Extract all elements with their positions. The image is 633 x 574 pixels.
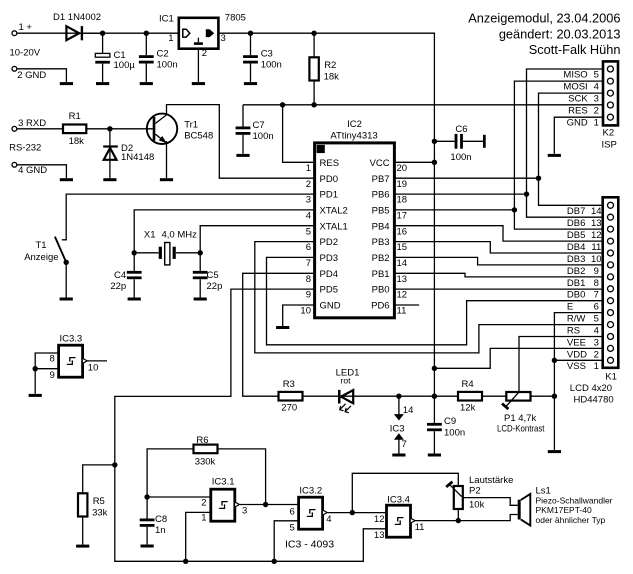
svg-text:14: 14 <box>591 206 602 217</box>
wire IC2 pin15 PB3 to K1 DB3 <box>394 242 602 253</box>
wire junction to IC3.1 pin2 <box>147 496 211 498</box>
svg-text:IC1: IC1 <box>159 13 174 24</box>
node junction MOSI/PB5 <box>512 207 517 212</box>
svg-text:6: 6 <box>306 242 311 253</box>
svg-text:100n: 100n <box>450 152 471 163</box>
wire IC2 pin17 PB5 to MOSI node <box>394 209 514 211</box>
svg-text:4: 4 <box>594 326 599 337</box>
wire K1 R/W to ground rail <box>554 313 602 451</box>
resistor R2 18k <box>309 33 339 105</box>
ground terminal2 <box>60 82 73 85</box>
wire 5V rail from IC1 out, down right side to LED row <box>218 33 434 396</box>
svg-text:4 GND: 4 GND <box>18 165 47 176</box>
svg-text:4: 4 <box>326 514 331 525</box>
svg-text:VCC: VCC <box>370 158 390 169</box>
svg-text:3 RXD: 3 RXD <box>18 118 46 129</box>
resistor R6 330k <box>147 435 266 505</box>
ground D2 <box>103 178 116 181</box>
svg-text:IC3: IC3 <box>390 424 405 435</box>
potentiometer P2 10k Lautstaerke <box>446 475 513 511</box>
svg-text:PD6: PD6 <box>371 301 389 312</box>
node junction IC3.1 pin1 on rail <box>183 559 188 564</box>
svg-text:15: 15 <box>397 242 408 253</box>
wire MOSI vertical K2 pin4 to K1 DB5 <box>514 81 603 229</box>
svg-text:PB5: PB5 <box>372 206 390 217</box>
wire PD4 to R3 <box>243 273 315 396</box>
crystal X1 4,0 MHz <box>137 229 198 265</box>
gate IC3.2 <box>290 485 332 533</box>
node junction VCC <box>432 160 437 165</box>
svg-text:PD3: PD3 <box>320 253 338 264</box>
svg-text:3: 3 <box>594 93 599 104</box>
svg-text:18: 18 <box>397 195 408 206</box>
wire D1 to IC1 <box>83 32 179 34</box>
svg-text:2 GND: 2 GND <box>17 70 46 81</box>
svg-text:5: 5 <box>594 69 599 80</box>
wire K1 VEE to P1 wiper <box>519 337 603 393</box>
svg-text:R3: R3 <box>283 379 295 390</box>
svg-text:12: 12 <box>591 230 602 241</box>
svg-text:13: 13 <box>591 218 602 229</box>
wire IC3.2 output to IC3.4 pin12 <box>327 512 386 514</box>
svg-text:4: 4 <box>594 81 599 92</box>
svg-text:2: 2 <box>594 349 599 360</box>
capacitor C7 100n <box>236 105 274 154</box>
wire IC2 pin11 PD6 stub <box>394 304 419 306</box>
ground C4 <box>128 298 141 301</box>
title block <box>468 11 620 57</box>
svg-text:10-20V: 10-20V <box>10 47 41 58</box>
ground C1 <box>96 82 109 85</box>
svg-text:1n: 1n <box>155 525 166 536</box>
svg-text:100n: 100n <box>261 60 282 71</box>
terminal 2 GND <box>12 66 46 81</box>
svg-text:7: 7 <box>306 258 311 269</box>
svg-text:XTAL2: XTAL2 <box>320 206 348 217</box>
svg-text:PD1: PD1 <box>320 190 338 201</box>
svg-text:2: 2 <box>594 105 599 116</box>
wire IC3.3 pin8 <box>35 353 58 369</box>
svg-text:PB4: PB4 <box>372 221 390 232</box>
svg-text:2: 2 <box>201 497 206 508</box>
svg-text:19: 19 <box>397 179 408 190</box>
wire rail to IC3.2 pin5 <box>274 521 298 562</box>
svg-text:1 +: 1 + <box>19 22 33 33</box>
capacitor C6 100n with rotated ground <box>432 124 486 163</box>
diode D2 1N4148 <box>103 129 154 178</box>
node junction X1 right <box>198 250 203 255</box>
svg-text:100µ: 100µ <box>114 60 136 71</box>
svg-text:PB6: PB6 <box>372 190 390 201</box>
svg-text:11: 11 <box>397 306 407 317</box>
potentiometer P1 4,7k <box>497 392 545 435</box>
svg-text:GND: GND <box>567 117 588 128</box>
svg-text:BC548: BC548 <box>184 131 213 142</box>
svg-text:T1: T1 <box>36 240 47 251</box>
svg-text:9: 9 <box>306 290 311 301</box>
svg-text:6: 6 <box>594 302 599 313</box>
svg-text:100n: 100n <box>444 427 465 438</box>
svg-text:C8: C8 <box>155 514 167 525</box>
wire terminal2 to ground <box>17 69 67 82</box>
node junction IC3 power <box>396 394 401 399</box>
svg-text:IC2: IC2 <box>347 119 362 130</box>
svg-text:C5: C5 <box>207 270 219 281</box>
wire rail to IC3.1 pin1 <box>186 512 211 561</box>
speaker Ls1 piezo <box>518 486 613 526</box>
node junction C2 <box>144 31 149 36</box>
wire IC2 pin5 XTAL1 to C5/X1 <box>200 226 314 253</box>
svg-text:10: 10 <box>591 254 602 265</box>
node junction IC3.1 out / R6 <box>263 502 268 507</box>
svg-text:LCD-Kontrast: LCD-Kontrast <box>497 424 545 435</box>
svg-text:MOSI: MOSI <box>563 81 587 92</box>
svg-text:3: 3 <box>242 506 247 517</box>
node junction IC3.3 inputs <box>33 366 38 371</box>
svg-text:1: 1 <box>201 513 206 524</box>
wire SCK vertical K2 pin3 to K1 DB7 <box>539 93 604 205</box>
svg-text:rot: rot <box>341 376 352 386</box>
wire R5 branch <box>83 465 115 493</box>
wire 5V to R4 <box>434 395 458 397</box>
svg-text:14: 14 <box>397 258 408 269</box>
svg-text:5: 5 <box>306 226 311 237</box>
svg-text:D1 1N4002: D1 1N4002 <box>53 12 101 23</box>
svg-text:20: 20 <box>397 163 408 174</box>
connector K2 ISP <box>602 61 619 150</box>
svg-text:VDD: VDD <box>567 349 587 360</box>
svg-text:8: 8 <box>50 354 55 365</box>
IC2 right pin numbers <box>397 163 408 317</box>
svg-text:100n: 100n <box>157 60 178 71</box>
svg-text:Anzeige: Anzeige <box>24 252 58 263</box>
svg-text:PB2: PB2 <box>372 253 390 264</box>
resistor R5 33k <box>78 493 108 518</box>
svg-text:DB3: DB3 <box>567 254 585 265</box>
svg-text:E: E <box>567 302 573 313</box>
svg-text:RS: RS <box>567 326 580 337</box>
wire E line PD3 to K1 E <box>267 257 603 344</box>
svg-text:3: 3 <box>221 33 226 44</box>
svg-text:1: 1 <box>306 163 311 174</box>
svg-text:12: 12 <box>374 514 385 525</box>
wire terminal4 to ground <box>17 165 67 178</box>
wire IC2 pin13 PB1 to K1 DB1 <box>394 273 602 277</box>
svg-text:18k: 18k <box>69 136 85 147</box>
svg-text:PKM17EPT-40: PKM17EPT-40 <box>536 505 592 515</box>
LED LED1 rot <box>336 368 360 413</box>
node junction SCK/PB7 <box>536 176 541 181</box>
svg-text:C6: C6 <box>455 124 467 135</box>
svg-text:DB5: DB5 <box>567 230 585 241</box>
wire P2 bottom to IC3.4 out row <box>457 509 459 521</box>
resistor R4 12k <box>458 379 482 413</box>
node junction IC3.2 pin5 on rail <box>272 559 277 564</box>
svg-text:4: 4 <box>306 211 311 222</box>
svg-text:10: 10 <box>88 362 99 373</box>
ground C8 <box>141 545 154 548</box>
svg-text:PD0: PD0 <box>320 174 338 185</box>
svg-text:P1 4,7k: P1 4,7k <box>504 413 536 424</box>
ground R5 <box>76 545 89 548</box>
capacitor C1 100u electrolytic <box>95 33 135 82</box>
svg-text:12k: 12k <box>460 403 476 414</box>
node junction R2 bottom on RES rail <box>311 102 316 107</box>
svg-text:oder ähnlicher Typ: oder ähnlicher Typ <box>536 515 606 525</box>
svg-text:18k: 18k <box>324 71 340 82</box>
node junction VDD branch <box>432 366 437 371</box>
ground C9 <box>428 454 441 457</box>
wire IC2 pin3 PD1 to switch T1 <box>62 194 315 240</box>
svg-text:XTAL1: XTAL1 <box>320 221 348 232</box>
wire RES rail C7 to K2 RES <box>243 104 603 106</box>
terminal 3 RXD <box>12 118 46 131</box>
svg-text:9: 9 <box>50 370 55 381</box>
resistor R1 18k <box>63 111 86 147</box>
wire IC2 pin20 VCC to 5V rail <box>394 161 434 163</box>
svg-text:X1: X1 <box>144 229 156 240</box>
diode D1 1N4002 <box>53 12 101 41</box>
resistor R3 270 <box>279 379 303 413</box>
svg-text:PB1: PB1 <box>372 269 390 280</box>
svg-text:P2: P2 <box>469 485 481 496</box>
wire terminal1 to D1 <box>17 32 103 34</box>
ground IC3 power <box>392 454 405 457</box>
wire K1 VSS to R/W rail <box>554 359 602 361</box>
svg-text:14: 14 <box>403 405 414 416</box>
wire IC3.3 pin9 <box>35 368 58 370</box>
svg-text:DB4: DB4 <box>567 242 585 253</box>
svg-text:13: 13 <box>397 274 408 285</box>
wire Tr1 collector to IC2 pin2 PD0 <box>167 105 315 179</box>
wire K2 GND pin1 to ground <box>554 117 603 154</box>
svg-text:IC3.2: IC3.2 <box>299 485 322 496</box>
node junction X1 left <box>132 250 137 255</box>
svg-text:Tr1: Tr1 <box>184 119 198 130</box>
svg-text:ISP: ISP <box>602 140 617 151</box>
wire IC2 pin19 PB7 to SCK node <box>394 177 538 179</box>
K1 pin labels <box>567 206 602 372</box>
svg-text:VSS: VSS <box>567 361 586 372</box>
wire IC1 pin2 to ground <box>197 49 199 82</box>
svg-text:100n: 100n <box>253 131 274 142</box>
svg-text:ATtiny4313: ATtiny4313 <box>330 131 377 142</box>
node junction C3 <box>248 31 253 36</box>
wire IC2 pin4 XTAL2 to C4/X1 <box>134 210 314 253</box>
gate IC3.3 <box>50 334 99 382</box>
svg-text:10k: 10k <box>469 500 485 511</box>
capacitor C4 22p <box>110 253 141 298</box>
ground T1 <box>60 298 73 301</box>
svg-text:SCK: SCK <box>568 93 588 104</box>
wire MISO vertical K2 pin5 to K1 DB6 <box>527 69 604 217</box>
node junction R2 top <box>311 31 316 36</box>
ground C2 <box>140 82 153 85</box>
svg-text:C3: C3 <box>261 49 273 60</box>
svg-text:5: 5 <box>594 314 599 325</box>
node junction VSS <box>552 358 557 363</box>
svg-text:geändert: 20.03.2013: geändert: 20.03.2013 <box>499 26 621 41</box>
svg-text:4,0 MHz: 4,0 MHz <box>162 229 198 240</box>
svg-text:RS-232: RS-232 <box>9 143 41 154</box>
IC2 left pin labels <box>320 158 348 312</box>
ground Tr1 emitter <box>160 178 173 181</box>
svg-text:PB0: PB0 <box>372 285 390 296</box>
svg-text:11: 11 <box>591 242 601 253</box>
svg-text:R4: R4 <box>462 379 474 390</box>
ground C5 <box>194 298 207 301</box>
svg-text:IC3.4: IC3.4 <box>387 495 410 506</box>
regulator IC1 7805 <box>159 12 246 59</box>
gate IC3.1 <box>201 477 247 524</box>
ground C3 <box>244 82 257 85</box>
IC3 power flag pin7 to ground <box>394 433 407 453</box>
node junction R5 branch <box>112 462 117 467</box>
svg-text:8: 8 <box>594 278 599 289</box>
svg-text:7805: 7805 <box>225 12 246 23</box>
svg-text:Scott-Falk Hühn: Scott-Falk Hühn <box>529 42 621 57</box>
K2 pin labels <box>563 69 599 128</box>
wire R1 to Tr1 base <box>86 128 152 130</box>
svg-text:R2: R2 <box>324 60 336 71</box>
svg-text:22p: 22p <box>207 281 223 292</box>
svg-text:IC3.1: IC3.1 <box>212 477 235 488</box>
node junction C8/R6/pin2 <box>144 494 149 499</box>
wire IC3.2 out branch to P2 top <box>352 473 458 512</box>
ground IC3.3 <box>29 394 42 397</box>
svg-text:VEE: VEE <box>567 337 586 348</box>
svg-text:IC3.3: IC3.3 <box>60 334 83 345</box>
IC3 power flag pin14 <box>390 396 414 434</box>
svg-text:K1: K1 <box>605 371 617 382</box>
switch T1 Anzeige <box>24 237 69 265</box>
wire IC3.4 output to speaker <box>415 515 518 521</box>
IC2 box <box>315 119 395 318</box>
wire P1 to GND rail <box>531 395 555 397</box>
wire IC2 pin12 PB0 to K1 DB0 <box>394 288 602 290</box>
gate IC3.4 <box>374 495 425 541</box>
svg-text:22p: 22p <box>110 281 126 292</box>
svg-text:C9: C9 <box>444 416 456 427</box>
wire P2 wiper to speaker <box>463 498 518 506</box>
ground IC1 <box>192 82 205 85</box>
svg-text:16: 16 <box>397 226 408 237</box>
node junction 5V LED row <box>432 394 437 399</box>
svg-text:R1: R1 <box>69 111 81 122</box>
wire IC2 pin10 GND to ground <box>283 305 315 326</box>
svg-text:33k: 33k <box>92 507 108 518</box>
svg-text:3: 3 <box>594 337 599 348</box>
svg-text:8: 8 <box>306 274 311 285</box>
svg-text:IC3 - 4093: IC3 - 4093 <box>285 539 334 551</box>
svg-text:270: 270 <box>281 403 297 414</box>
wire R3 to LED1 <box>303 395 354 397</box>
wire IC2 pin16 PB4 to K1 DB4 <box>394 226 602 241</box>
svg-text:C7: C7 <box>253 120 265 131</box>
node junction C1 <box>100 31 105 36</box>
svg-text:MISO: MISO <box>563 69 587 80</box>
wire RES branch to IC2 pin1 <box>283 105 315 163</box>
svg-text:5: 5 <box>290 523 295 534</box>
node junction MISO/PB6 <box>524 191 529 196</box>
svg-text:PB7: PB7 <box>372 174 390 185</box>
ground R/W rail <box>548 450 561 453</box>
transistor Tr1 BC548 <box>147 114 213 144</box>
svg-text:K2: K2 <box>603 128 615 139</box>
svg-text:1N4148: 1N4148 <box>121 152 154 163</box>
svg-text:1: 1 <box>594 361 599 372</box>
svg-text:C4: C4 <box>114 270 126 281</box>
capacitor C5 22p <box>193 253 223 298</box>
ground IC2 <box>276 326 289 329</box>
svg-text:PD5: PD5 <box>320 285 338 296</box>
svg-text:Piezo-Schallwandler: Piezo-Schallwandler <box>536 495 613 505</box>
svg-text:1: 1 <box>594 117 599 128</box>
wire LED1 to 5V <box>353 395 434 397</box>
wire Tr1 emitter to ground <box>166 141 168 178</box>
capacitor C2 100n <box>139 33 178 82</box>
svg-text:HD44780: HD44780 <box>574 395 614 406</box>
wire K1 VDD to 5V rail <box>434 348 602 368</box>
wire RS line PD2 to K1 RS <box>255 242 603 353</box>
ground C7 <box>236 154 249 157</box>
terminal 4 GND <box>12 162 47 176</box>
wire PD5 net: pin9 down, left, down, bottom rail, to IC3.4 pin13 <box>115 289 387 561</box>
svg-text:1: 1 <box>168 33 173 44</box>
capacitor C8 1n <box>140 497 167 545</box>
wire R4 to P1 <box>482 395 506 397</box>
connector K1 LCD <box>570 197 619 405</box>
ground K2 <box>548 154 561 157</box>
svg-text:PB3: PB3 <box>372 237 390 248</box>
capacitor C3 100n <box>243 33 282 82</box>
wire T1 to ground <box>65 262 67 297</box>
node junction D2 <box>107 126 112 131</box>
wire R5 to ground <box>82 517 84 545</box>
svg-text:DB7: DB7 <box>567 206 585 217</box>
svg-text:6: 6 <box>290 506 295 517</box>
svg-text:DB2: DB2 <box>567 266 585 277</box>
svg-text:C2: C2 <box>157 49 169 60</box>
wire IC2 pin14 PB2 to K1 DB2 <box>394 257 602 265</box>
svg-text:13: 13 <box>374 530 385 541</box>
node junction RES branch <box>280 102 285 107</box>
wire IC2 pin18 PB6 to MISO node <box>394 193 526 195</box>
svg-text:LCD 4x20: LCD 4x20 <box>570 383 612 394</box>
svg-text:R5: R5 <box>93 496 105 507</box>
ground terminal4 <box>60 178 73 181</box>
node junction P2/IC3.4 out <box>456 518 461 523</box>
wire IC3.1 output to IC3.2 pin6 <box>239 504 298 506</box>
node junction P1 right <box>552 394 557 399</box>
svg-text:3: 3 <box>306 195 311 206</box>
svg-text:GND: GND <box>320 301 341 312</box>
svg-text:7: 7 <box>402 439 407 450</box>
svg-text:DB1: DB1 <box>567 278 585 289</box>
IC2 right pin labels <box>370 158 390 312</box>
svg-text:11: 11 <box>415 522 425 533</box>
svg-text:330k: 330k <box>195 456 216 467</box>
svg-text:7: 7 <box>594 290 599 301</box>
node junction IC3.2 out <box>350 510 355 515</box>
wire terminal3 to R1 <box>17 128 63 130</box>
svg-text:9: 9 <box>594 266 599 277</box>
svg-text:17: 17 <box>397 211 408 222</box>
svg-text:R/W: R/W <box>567 314 586 325</box>
svg-text:R6: R6 <box>196 435 208 446</box>
svg-text:RES: RES <box>320 158 340 169</box>
svg-text:RES: RES <box>568 105 588 116</box>
